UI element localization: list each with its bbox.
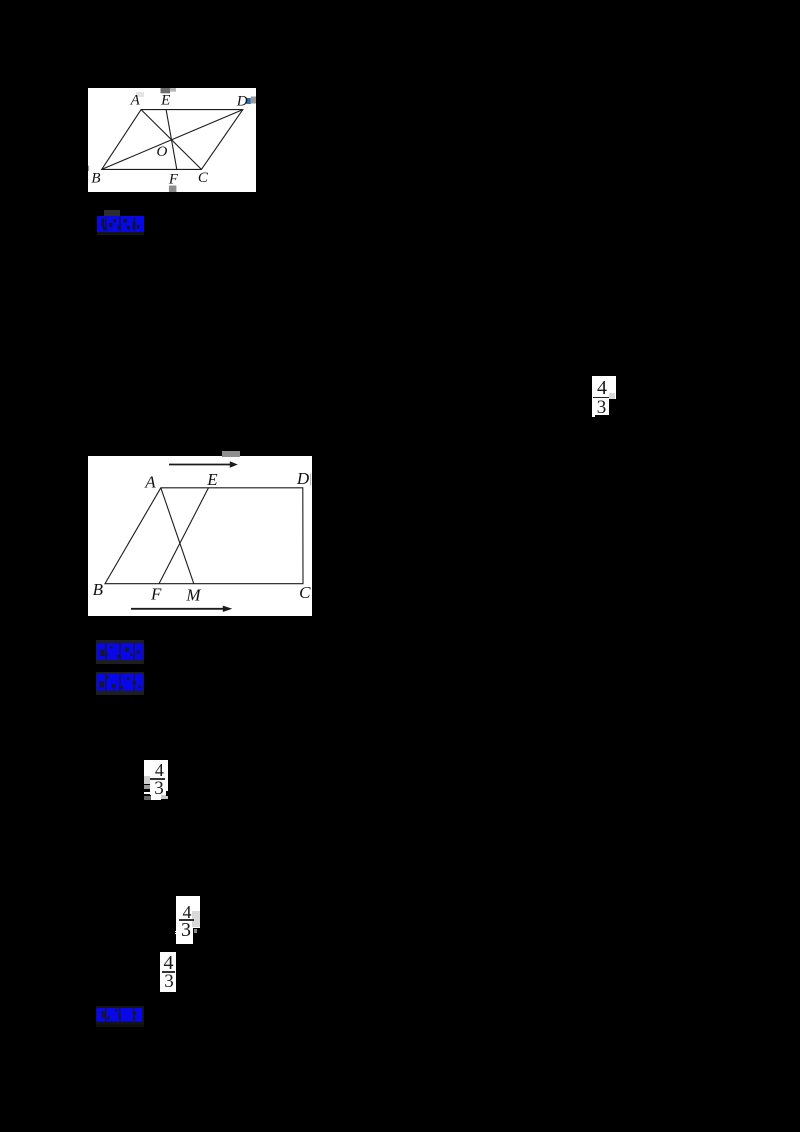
svg-text:A: A: [130, 92, 141, 108]
svg-text:E: E: [206, 470, 218, 489]
svg-text:E: E: [160, 92, 170, 108]
svg-text:F: F: [150, 585, 162, 604]
svg-text:D: D: [236, 93, 248, 109]
svg-text:B: B: [93, 580, 104, 599]
svg-text:C: C: [299, 583, 311, 602]
svg-text:F: F: [168, 172, 179, 188]
svg-text:B: B: [91, 171, 100, 187]
svg-text:M: M: [185, 585, 201, 604]
svg-text:C: C: [198, 170, 209, 186]
svg-text:D: D: [296, 469, 310, 488]
svg-text:A: A: [144, 473, 156, 492]
svg-text:O: O: [156, 144, 167, 160]
